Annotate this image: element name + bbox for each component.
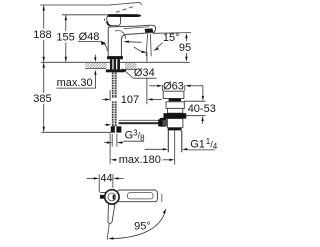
drain plug band	[169, 98, 181, 101]
label O34 with leader	[121, 67, 156, 79]
svg-text:385: 385	[33, 93, 51, 105]
lever hub	[107, 15, 121, 26]
dimension 107	[102, 94, 161, 106]
rotated arm extension line	[107, 224, 109, 240]
dimension O63	[149, 80, 199, 92]
svg-text:15°: 15°	[163, 32, 180, 44]
countertop hatch right	[125, 63, 136, 70]
aerator	[145, 28, 154, 32]
lever handle bar	[108, 14, 141, 17]
svg-text:155: 155	[56, 32, 74, 44]
countertop hatch left	[85, 63, 107, 69]
body reflection line	[115, 30, 123, 33]
40-53 bottom reference line	[184, 115, 205, 117]
drain side port	[158, 119, 163, 126]
hub center mark	[113, 195, 115, 200]
drain tube lower	[167, 119, 183, 128]
svg-text:max.180: max.180	[119, 154, 161, 166]
countertop bottom line left	[85, 68, 106, 70]
drain lock nut	[164, 113, 187, 118]
dimension G1 1/4	[145, 137, 218, 151]
svg-text:95°: 95°	[134, 221, 151, 233]
dimension 188	[33, 5, 51, 62]
flow direction arc arrow	[134, 47, 143, 52]
svg-text:max.30: max.30	[57, 77, 93, 89]
threaded shank above counter	[110, 59, 120, 69]
tailpipe center line	[174, 130, 176, 164]
drain flange lip	[166, 102, 184, 109]
top view lever arm	[117, 190, 157, 202]
supply hoses braided lower	[112, 101, 117, 126]
svg-text:Ø34: Ø34	[134, 67, 155, 79]
svg-text:40-53: 40-53	[188, 103, 216, 115]
raised lever phantom outline	[110, 2, 142, 5]
extension line 188 level raised lever top	[40, 4, 110, 6]
dimension max.30	[57, 55, 97, 90]
hub shadow crescent	[107, 21, 110, 25]
15 deg leader	[156, 43, 163, 49]
dimension 44	[87, 172, 124, 192]
faucet body outline	[108, 25, 155, 57]
base escutcheon dark band	[107, 56, 123, 59]
supply hoses braided upper	[112, 72, 117, 97]
svg-text:107: 107	[121, 94, 139, 106]
svg-text:Ø48: Ø48	[79, 31, 100, 43]
top view lever arm rotated position	[108, 204, 115, 224]
arm end extension line	[161, 194, 163, 202]
body inner corner line	[122, 32, 126, 39]
countertop line	[41, 61, 189, 63]
nut under counter	[106, 69, 125, 72]
hub inner circle	[108, 193, 116, 201]
40-53 top reference line	[184, 100, 205, 102]
dimension 385	[33, 63, 51, 132]
drain coupling ring	[168, 128, 182, 131]
385 bottom reference line hose end	[41, 131, 111, 133]
dimension 95	[179, 33, 191, 62]
label O48 with leader	[78, 31, 107, 51]
dimension 155	[56, 15, 74, 62]
40-53 lower arrow	[202, 120, 204, 124]
pop-up rod horizontal pipe	[119, 119, 160, 121]
top view hub	[105, 190, 119, 204]
extension line jet axis	[146, 52, 148, 104]
raised lever dashed lines	[116, 7, 134, 13]
lever arm inner groove	[128, 193, 153, 199]
hub left stub	[100, 191, 106, 193]
95 top reference line	[153, 32, 191, 35]
spout top edge double line	[124, 27, 150, 29]
extension line faucet axis	[109, 90, 111, 164]
svg-text:Ø63: Ø63	[163, 80, 184, 92]
countertop bottom line right	[125, 68, 137, 70]
95 deg arc	[112, 211, 165, 238]
extension line 155 level lever top	[62, 14, 108, 16]
hub phantom dash left	[105, 19, 106, 23]
pipe knob at drain	[160, 118, 167, 127]
drain tailpipe	[168, 130, 182, 152]
svg-text:188: 188	[33, 29, 51, 41]
jet stream lines	[146, 34, 151, 56]
elbow to 40-53	[199, 86, 203, 97]
drain flange cup	[163, 91, 184, 98]
svg-text:95: 95	[179, 42, 191, 54]
G3/8 fitting	[111, 126, 122, 132]
flow direction arrow horizontal	[128, 41, 142, 44]
dimension max.180	[111, 154, 175, 166]
arrow at hose pipe level	[105, 124, 107, 126]
drain tube upper	[168, 108, 183, 113]
dimension G3/8	[104, 128, 145, 146]
svg-text:44: 44	[100, 172, 112, 184]
